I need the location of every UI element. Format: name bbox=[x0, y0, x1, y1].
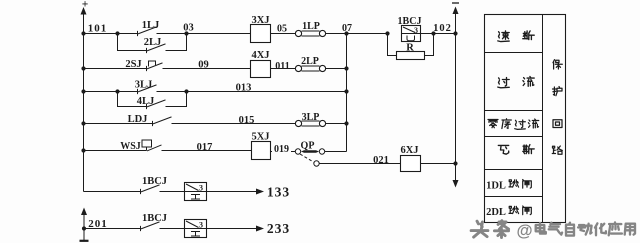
table row wa-si bbox=[498, 145, 534, 155]
wire left bus L+ bbox=[83, 10, 85, 192]
node minus terminal bbox=[452, 3, 459, 14]
lamp 2LP bbox=[295, 56, 325, 72]
svg-text:QP: QP bbox=[301, 141, 315, 152]
watermark toutiao logo bbox=[471, 221, 509, 238]
svg-text:WSJ: WSJ bbox=[120, 141, 141, 152]
svg-text:03: 03 bbox=[183, 23, 194, 34]
svg-text:2DL: 2DL bbox=[486, 207, 506, 218]
svg-text:1LP: 1LP bbox=[302, 21, 320, 32]
svg-text:09: 09 bbox=[198, 60, 209, 71]
table row su-duan bbox=[498, 31, 534, 42]
node plus terminal bbox=[81, 0, 89, 15]
node 013 bbox=[184, 83, 348, 94]
svg-text:019: 019 bbox=[274, 144, 289, 155]
wire right bus L- bbox=[453, 9, 459, 188]
wire 5XJ to QP, node 019 bbox=[271, 144, 296, 155]
connector QP alternate throw (dashed) bbox=[300, 154, 319, 166]
svg-text:3: 3 bbox=[414, 26, 418, 35]
contact 1LJ bbox=[118, 20, 187, 36]
table col baohuhuilu bbox=[552, 60, 562, 155]
wire 3XJ to lamp, node 05 bbox=[271, 24, 296, 35]
svg-text:6XJ: 6XJ bbox=[400, 145, 418, 156]
node 07 bbox=[326, 23, 388, 36]
svg-text:021: 021 bbox=[373, 155, 389, 166]
wire 101 to branch bbox=[84, 31, 120, 35]
resistor R parallel bbox=[388, 34, 434, 60]
wire QP to 6XJ, node 021 bbox=[320, 155, 401, 166]
contact 1BCJ (row 133) bbox=[84, 176, 185, 194]
svg-text:1DL: 1DL bbox=[486, 181, 506, 192]
wire 1BCJ to bus, node 102 bbox=[421, 23, 456, 36]
table row guo-liu bbox=[498, 77, 534, 88]
table row lingxuguoliu bbox=[488, 119, 539, 130]
signal relay 1BCJ box (row 133) bbox=[185, 183, 207, 201]
wire 6XJ to bus bbox=[421, 163, 456, 165]
relay coil 5XJ bbox=[251, 132, 270, 160]
node 101 bbox=[81, 23, 107, 36]
relay coil 6XJ bbox=[400, 145, 420, 172]
lamp 3LP bbox=[295, 112, 325, 127]
svg-text:+: + bbox=[82, 0, 89, 11]
svg-text:2SJ: 2SJ bbox=[125, 59, 141, 70]
svg-text:05: 05 bbox=[277, 24, 287, 35]
signal relay 1BCJ box (row 233) bbox=[185, 220, 207, 238]
wire 2LP to vertical bbox=[326, 66, 349, 70]
svg-text:102: 102 bbox=[433, 23, 452, 34]
contact 2SJ time-delay bbox=[81, 59, 250, 71]
node 03 bbox=[183, 23, 194, 36]
table frame bbox=[485, 15, 566, 223]
wire 4XJ to lamp, node 011 bbox=[271, 61, 296, 72]
svg-text:233: 233 bbox=[267, 221, 290, 236]
wire vertical collector bbox=[346, 34, 348, 152]
connector QP bbox=[295, 141, 346, 155]
relay coil 3XJ bbox=[251, 15, 271, 43]
svg-text:011: 011 bbox=[275, 61, 289, 72]
svg-text:LDJ: LDJ bbox=[128, 114, 148, 125]
svg-text:133: 133 bbox=[267, 185, 290, 200]
wire to 133 bbox=[207, 185, 291, 200]
svg-text:3LJ: 3LJ bbox=[135, 80, 153, 91]
contact 3LJ bbox=[118, 80, 187, 95]
svg-text:1BCJ: 1BCJ bbox=[142, 176, 167, 187]
lamp 1LP bbox=[295, 21, 325, 37]
table row 1DL tiaozha bbox=[486, 180, 531, 192]
wire to 233 bbox=[207, 221, 291, 236]
svg-text:5XJ: 5XJ bbox=[251, 132, 269, 143]
svg-text:1BCJ: 1BCJ bbox=[142, 213, 167, 224]
svg-text:2LP: 2LP bbox=[301, 56, 319, 67]
svg-text:3: 3 bbox=[199, 184, 203, 193]
relay coil 4XJ bbox=[251, 50, 271, 78]
node 201 bbox=[82, 218, 108, 231]
wire 03 to 3XJ bbox=[187, 33, 251, 35]
relay 1BCJ signal bbox=[385, 16, 421, 42]
table row 2DL tiaozha bbox=[486, 206, 531, 218]
svg-text:07: 07 bbox=[342, 23, 352, 34]
svg-text:017: 017 bbox=[197, 142, 213, 153]
svg-text:101: 101 bbox=[88, 23, 108, 35]
contact LDJ bbox=[81, 114, 295, 126]
wire bus 201 bbox=[80, 208, 89, 241]
contact WSJ bbox=[81, 140, 251, 153]
contact 1BCJ (row 233) bbox=[84, 213, 185, 231]
svg-text:4XJ: 4XJ bbox=[251, 50, 269, 61]
wire 3LP to vertical bbox=[326, 121, 349, 125]
wire bus to branch bbox=[81, 89, 119, 93]
svg-text:3: 3 bbox=[199, 221, 203, 230]
svg-text:015: 015 bbox=[239, 115, 255, 126]
svg-text:@: @ bbox=[516, 222, 532, 240]
watermark handle text bbox=[516, 222, 635, 240]
contact 4LJ bbox=[118, 92, 187, 110]
contact 2LJ bbox=[118, 34, 187, 54]
